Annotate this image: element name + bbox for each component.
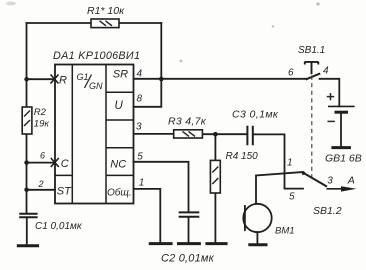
svg-text:R: R [59, 74, 67, 86]
ground bar under microphone [248, 243, 267, 246]
label R3 value [168, 115, 207, 127]
svg-text:GN: GN [89, 81, 103, 91]
svg-text:19к: 19к [34, 118, 50, 129]
svg-text:6: 6 [40, 150, 45, 160]
pin number 6 SB1.1 [288, 68, 294, 79]
label C1 value [35, 221, 83, 232]
pin R inversion mark [51, 75, 59, 84]
svg-text:U: U [115, 100, 124, 112]
pin number 4 SB1.1 [323, 65, 329, 76]
svg-text:NC: NC [110, 159, 126, 171]
battery GB1 plus sign [327, 93, 334, 100]
label SB1.1 [298, 45, 325, 56]
pin C inversion mark [51, 158, 59, 167]
wire left rail vertical [26, 23, 28, 214]
pin number 1 SB1.2 [287, 157, 293, 168]
node junction left rail pin 6 [24, 160, 29, 165]
wire pin 4 to SB1.1 left contact [134, 78, 307, 80]
mechanical link dashed line [311, 76, 313, 182]
scan speck top [316, 2, 319, 5]
node junction R3 R4 C3 [213, 132, 218, 137]
svg-text:C: C [61, 158, 69, 170]
pin number 4 [137, 68, 143, 79]
svg-text:4: 4 [323, 65, 329, 76]
svg-text:5: 5 [137, 152, 143, 163]
capacitor C2 [179, 212, 200, 216]
wire microphone top to SB1.2 pin1 [256, 172, 303, 204]
wire pin 3 to R3 [134, 133, 174, 135]
switch SB1.1 button actuator [305, 62, 319, 74]
capacitor C1 [19, 214, 37, 218]
label C3 value [232, 109, 279, 121]
svg-text:SR: SR [113, 68, 128, 80]
svg-text:DA1 KР1006ВИ1: DA1 KР1006ВИ1 [53, 50, 140, 62]
label R2 value [34, 118, 50, 129]
svg-text:ST: ST [57, 186, 72, 198]
label SR [113, 68, 128, 80]
resistor R2 [22, 107, 32, 134]
label output A [347, 175, 355, 187]
svg-text:ВМ1: ВМ1 [275, 225, 295, 236]
wire R4 bottom [214, 193, 216, 243]
node junction left rail pin 2 [24, 188, 29, 193]
label R input [59, 74, 67, 86]
scan smudge top left [6, 2, 16, 6]
svg-text:3: 3 [327, 176, 333, 187]
resistor R1 [91, 19, 119, 28]
label Obshch common pin [107, 186, 132, 198]
ground bar under C1 [17, 244, 39, 247]
wire pin R stub [27, 78, 56, 80]
pin number 5 [137, 152, 143, 163]
wire R3 to junction to C3 [202, 133, 247, 135]
node junction left rail pin R [24, 77, 29, 82]
label R4 value [226, 151, 259, 162]
wire C2 bottom [188, 217, 190, 243]
capacitor C3 [247, 126, 252, 146]
svg-text:R1* 10к: R1* 10к [87, 5, 125, 17]
ground bar under pin 1 wire [149, 242, 173, 245]
svg-text:3: 3 [136, 122, 142, 133]
ground bar battery negative terminal [331, 146, 351, 149]
switch SB1.1 contact blade [306, 73, 321, 79]
svg-text:5: 5 [289, 191, 295, 202]
battery GB1 positive plate [328, 105, 355, 107]
wire pin 8 stub up to pin4 rail [134, 79, 162, 107]
battery GB1 minus sign [328, 120, 335, 122]
svg-text:G1: G1 [77, 72, 89, 82]
svg-text:8: 8 [137, 93, 143, 104]
wire pin 5 NC to C2 [134, 162, 189, 212]
pin number 8 [137, 93, 143, 104]
label DA1 KR1006VI1 [53, 50, 140, 62]
ground bar under C2 [177, 242, 201, 245]
microphone BM1 [243, 204, 271, 232]
label U [115, 100, 124, 112]
svg-text:С2 0,01мк: С2 0,01мк [161, 252, 215, 264]
svg-text:С1 0,01мк: С1 0,01мк [35, 221, 83, 232]
label NC [110, 159, 126, 171]
pin number 3 SB1.2 [327, 176, 333, 187]
svg-text:R2: R2 [34, 107, 47, 118]
svg-text:4: 4 [137, 68, 143, 79]
svg-text:SB1.2: SB1.2 [313, 205, 342, 217]
svg-text:SB1.1: SB1.1 [298, 45, 325, 56]
wire C1 stem [26, 218, 28, 246]
resistor R4 [210, 160, 220, 193]
wire pin 2 ST stub [27, 189, 56, 191]
wire top rail from left corner through R1 to right corner [27, 22, 162, 24]
label C2 value [161, 252, 215, 264]
svg-text:R4 150: R4 150 [226, 151, 259, 162]
label R1 value [87, 5, 125, 17]
wire C3 right to SB1.2 pin5 [253, 134, 303, 188]
svg-text:Общ.: Общ. [107, 186, 132, 198]
wire battery negative to terminal bar [340, 113, 342, 147]
svg-text:2: 2 [38, 179, 44, 189]
wire R4 top [214, 134, 216, 160]
ground bar under R4 [205, 242, 227, 245]
label ST input [57, 186, 72, 198]
wire vertical from R1 corner down to pin4 junction [160, 23, 162, 79]
label G1/GN inside IC [77, 72, 104, 91]
scan speck left [272, 25, 275, 28]
label R2 [34, 107, 47, 118]
svg-text:GB1 6В: GB1 6В [325, 153, 362, 165]
svg-text:R3 4,7к: R3 4,7к [168, 115, 207, 127]
svg-text:1: 1 [139, 178, 145, 189]
pin number 1 [139, 178, 145, 189]
label SB1.2 [313, 205, 342, 217]
node junction R1/pin4 [159, 77, 164, 82]
svg-text:С3 0,1мк: С3 0,1мк [232, 109, 279, 121]
battery GB1 negative plate [335, 111, 349, 114]
op-amp U1 timer IC DA1 body [55, 65, 134, 204]
svg-text:1: 1 [287, 157, 293, 168]
svg-text:6: 6 [288, 68, 294, 79]
wire SB1.2 pole to output arrow A [327, 186, 357, 191]
pin number 5 SB1.2 [289, 191, 295, 202]
pin number 6 left [40, 150, 45, 160]
switch SB1.2 contact blade [302, 172, 327, 187]
pin number 2 left [38, 179, 44, 189]
wire microphone bottom [256, 232, 258, 243]
pin number 3 [136, 122, 142, 133]
resistor R3 [174, 130, 203, 138]
svg-text:A: A [347, 175, 355, 187]
wire pin 1 common down [134, 189, 161, 243]
label GB1 6V [325, 153, 362, 165]
wire SB1.1 right contact to battery [320, 79, 340, 107]
label BM1 [275, 225, 295, 236]
label C input [61, 158, 69, 170]
scan speck mid [180, 60, 183, 63]
wire pin 6 C stub [27, 162, 56, 164]
